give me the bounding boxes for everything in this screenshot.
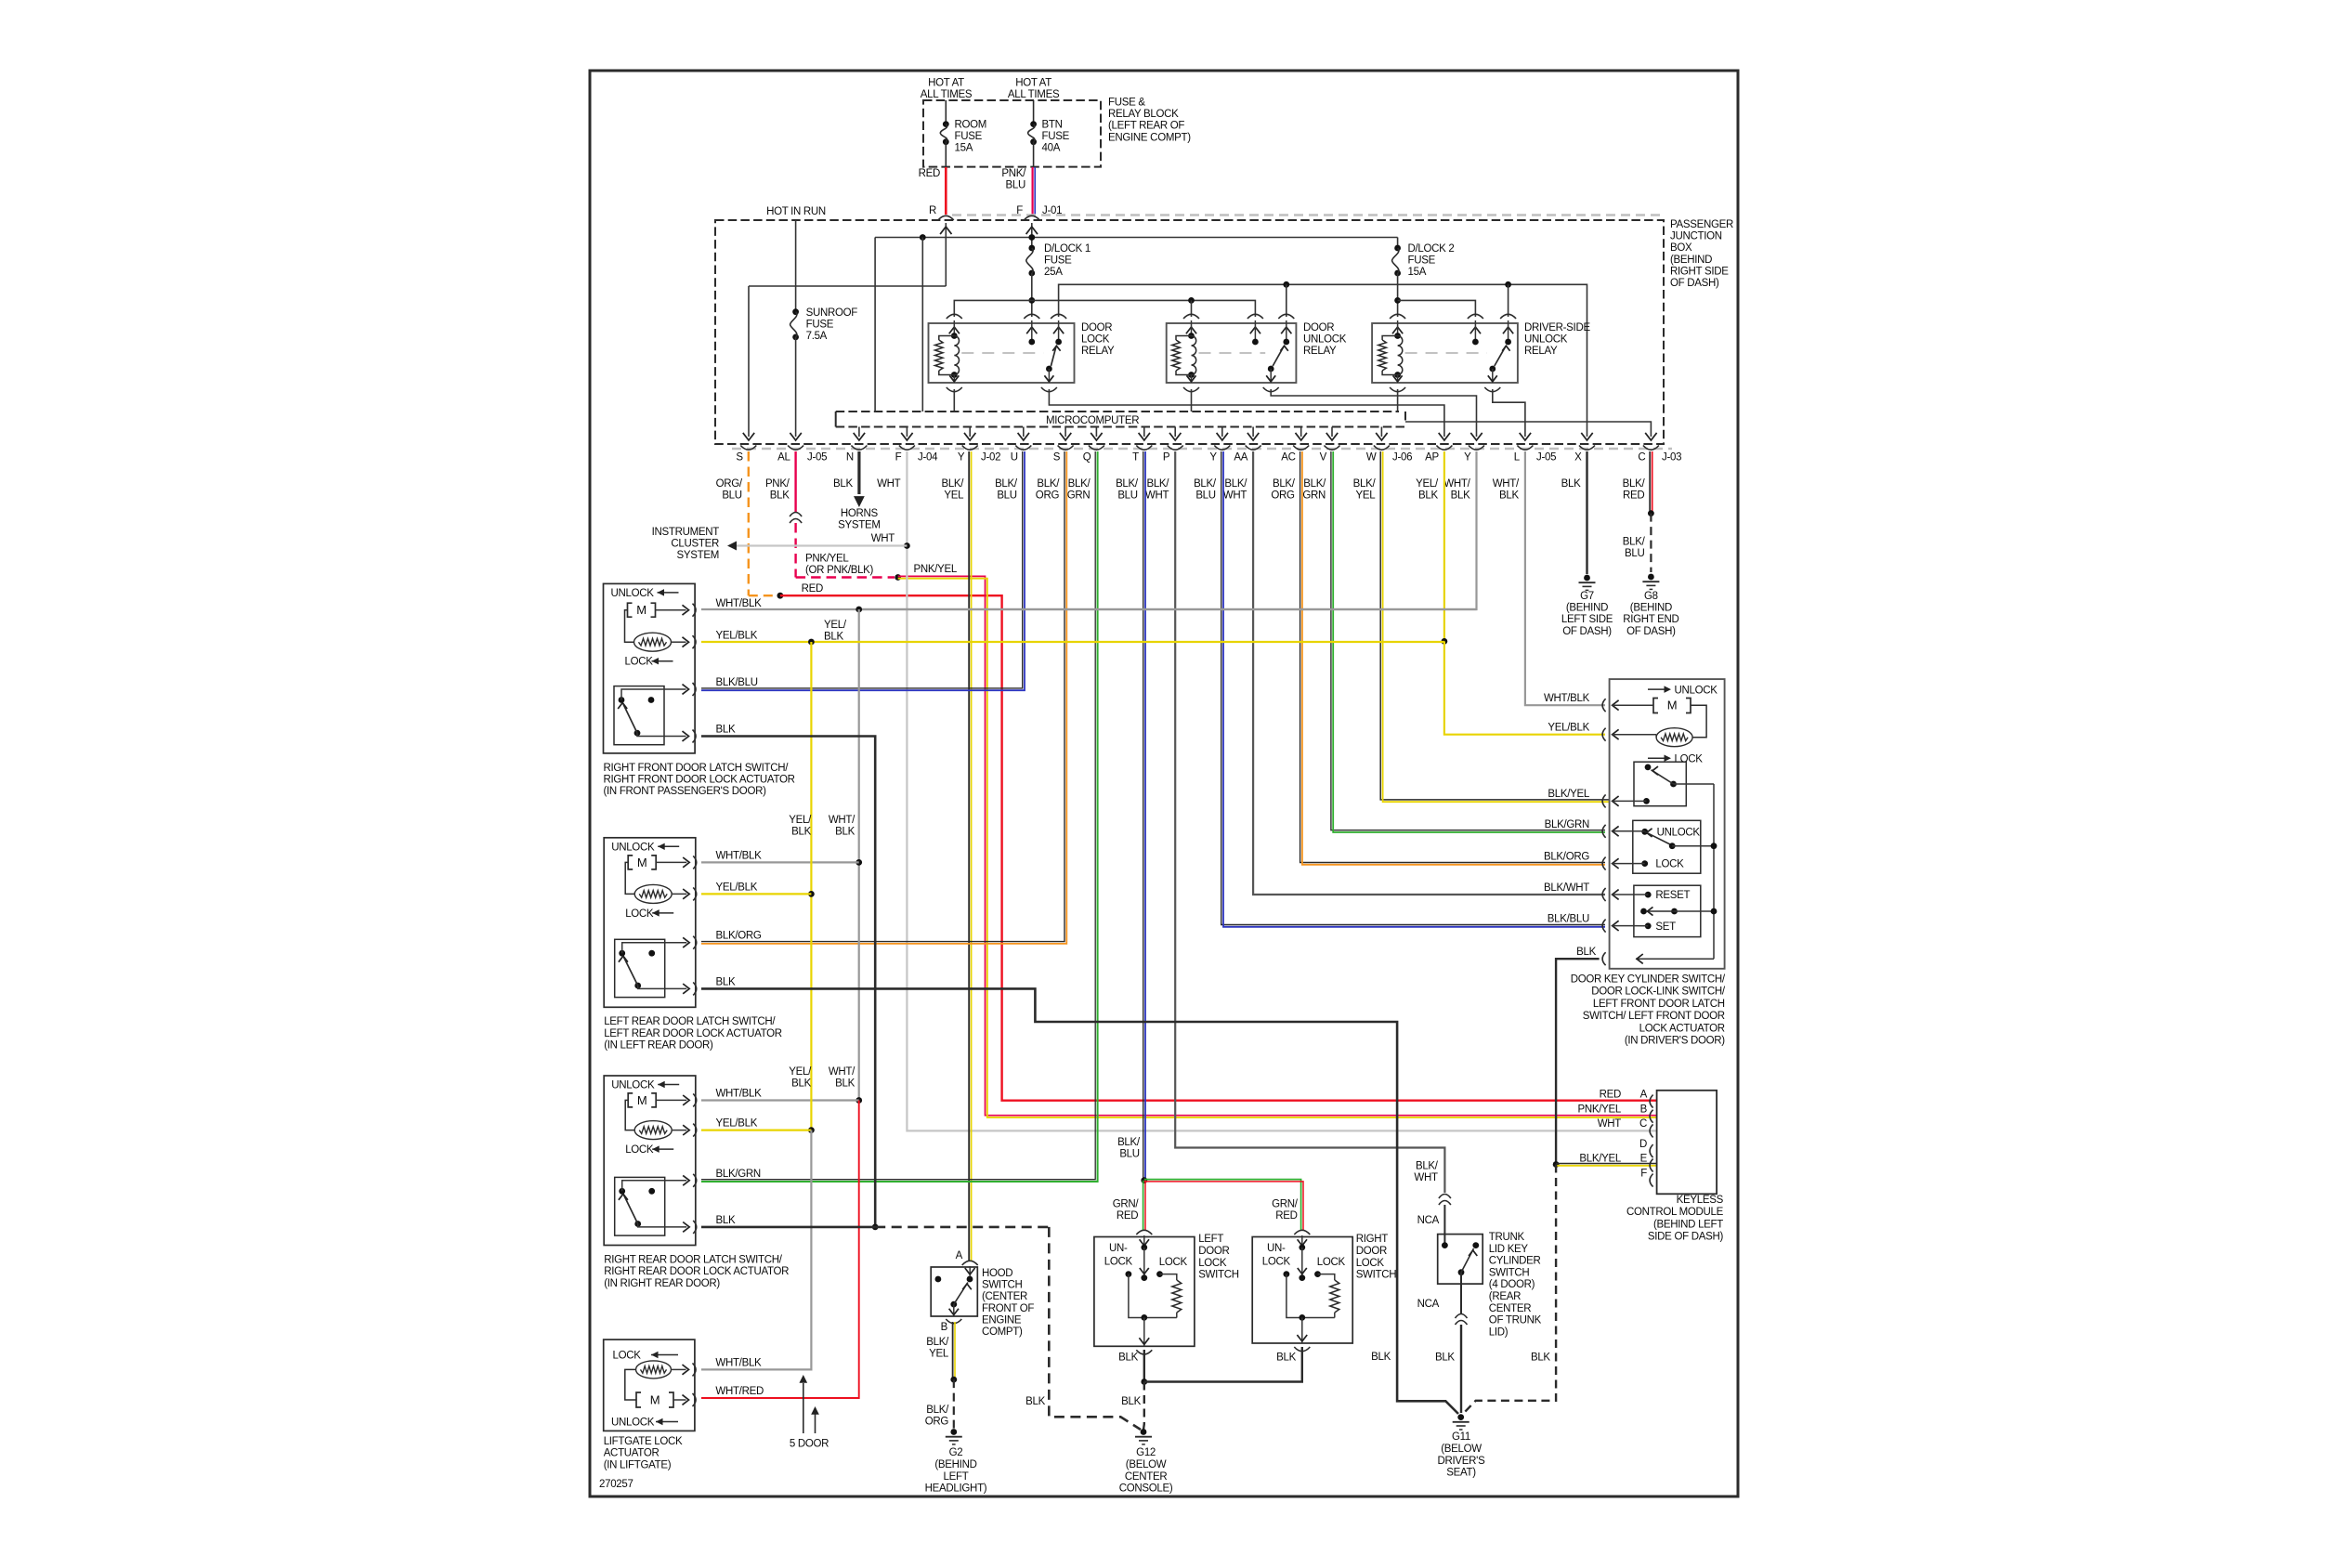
connector terminal Y at x=1590 [1469,446,1484,451]
svg-text:P: P [1163,452,1170,464]
RIGHT|DOOR|LOCK|SWITCH connector bracket [1294,1230,1310,1235]
wire door unlock relay coil to microcomputer [1191,389,1193,412]
wire RED trunk feed to keyless module [780,595,1657,1100]
svg-text:ORG/: ORG/ [716,478,743,490]
svg-text:GRN/: GRN/ [1113,1199,1140,1210]
svg-text:25A: 25A [1044,267,1063,278]
svg-text:S: S [736,452,743,464]
svg-text:INSTRUMENT: INSTRUMENT [652,527,720,538]
wire BLK/YEL from Y terminal to hood switch A [968,451,970,1261]
svg-text:AC: AC [1281,452,1295,464]
svg-text:WHT/BLK: WHT/BLK [716,850,763,861]
svg-text:BLK: BLK [1435,1352,1455,1363]
svg-text:OF DASH): OF DASH) [1626,626,1676,637]
pin BLK/GRN into UNLOCK contact [1602,825,1606,838]
svg-text:BLK/BLU: BLK/BLU [716,677,758,688]
svg-text:F: F [895,452,902,464]
wire ROOM FUSE to R terminal [945,142,947,167]
svg-text:A: A [956,1250,963,1261]
svg-text:HORNS: HORNS [841,508,879,519]
hood switch internals [969,1266,971,1276]
hood switch B pin bracket [946,1319,961,1324]
svg-text:BLK/: BLK/ [1224,478,1247,490]
svg-text:RIGHT FRONT DOOR LOCK ACTUATOR: RIGHT FRONT DOOR LOCK ACTUATOR [604,775,795,786]
svg-text:FUSE: FUSE [1408,255,1436,267]
ground G8 [1648,574,1654,581]
RIGHT|DOOR|LOCK|SWITCH output bracket [1294,1347,1310,1352]
svg-text:LOCK: LOCK [1655,859,1684,870]
svg-text:G2: G2 [949,1447,963,1458]
connector terminal W at x=1487 [1374,446,1390,451]
wire WHT/BLK from L terminal to driver door motor [1525,451,1605,705]
wire BLK/BLU from U terminal to right front door latch switch [701,451,1023,688]
svg-text:(IN DRIVER'S DOOR): (IN DRIVER'S DOOR) [1625,1036,1725,1047]
svg-text:(IN LEFT REAR DOOR): (IN LEFT REAR DOOR) [604,1040,713,1052]
svg-text:BLK/: BLK/ [1146,478,1169,490]
svg-text:UNLOCK: UNLOCK [611,842,655,853]
wire BLK/ORG from S terminal to left rear door latch switch [701,451,1064,942]
wire door lock relay coil to microcomputer [953,389,955,412]
wire WHT/RED continuation to liftgate motor [701,1101,859,1399]
motor pin [683,857,689,868]
svg-text:MICROCOMPUTER: MICROCOMPUTER [1046,415,1139,426]
wire door lock relay switch output to AP terminal [1049,389,1444,437]
svg-text:DRIVER-SIDE: DRIVER-SIDE [1524,322,1590,333]
wire branch down to S terminal (HOT IN RUN feed) [748,286,750,437]
svg-text:UNLOCK: UNLOCK [1657,827,1701,838]
component KEYLESS CONTROL MODULE box [1657,1091,1718,1195]
svg-text:U: U [1011,452,1018,464]
svg-text:CONTROL MODULE: CONTROL MODULE [1626,1207,1724,1218]
ground G11 [1457,1414,1464,1420]
svg-text:LID): LID) [1489,1326,1509,1338]
svg-text:DOOR LOCK-LINK SWITCH/: DOOR LOCK-LINK SWITCH/ [1591,987,1726,998]
latch switch wiring to pins [622,943,687,953]
svg-text:BLU: BLU [1195,490,1215,502]
svg-text:RIGHT: RIGHT [1356,1234,1389,1245]
svg-text:BLK: BLK [1499,490,1519,502]
svg-text:LEFT REAR DOOR LOCK ACTUATOR: LEFT REAR DOOR LOCK ACTUATOR [604,1028,782,1039]
wire PNK/YEL to keyless module B pin [898,576,1657,1115]
svg-text:NCA: NCA [1417,1299,1440,1310]
svg-text:WHT/: WHT/ [829,815,856,826]
wire ORG/BLU dashed from S terminal [748,451,750,595]
svg-text:C: C [1638,452,1645,464]
svg-text:RED: RED [1117,1210,1138,1222]
component DOOR KEY CYLINDER SWITCH / driver's door box [1610,679,1725,969]
svg-text:J-03: J-03 [1662,452,1681,464]
svg-text:BLK/ORG: BLK/ORG [1544,852,1589,863]
wire HOT feed to ROOM FUSE [945,100,947,124]
wire BLK dashed to ground G12 [875,1226,1049,1229]
svg-text:M: M [637,1093,647,1107]
wire GRN/RED to right door lock switch [1144,1180,1301,1230]
svg-text:HOT IN RUN: HOT IN RUN [766,206,826,217]
svg-text:BLK: BLK [1561,478,1581,490]
wire BLK from driver door to keyless module E [1556,959,1600,1164]
door latch/actuator box outline [604,1076,696,1246]
svg-text:LOCK ACTUATOR: LOCK ACTUATOR [1639,1023,1725,1034]
wire driver-side unlock relay coil to microcomputer [1397,389,1399,412]
driver door motor pin WHT/BLK [1602,699,1606,712]
svg-text:5 DOOR: 5 DOOR [790,1439,829,1450]
svg-text:OF DASH): OF DASH) [1562,626,1612,637]
connector terminal T at x=1232 [1136,446,1152,451]
svg-text:YEL/BLK: YEL/BLK [1548,723,1589,734]
wire BLK dashed from keyless to ground G11 [1464,1165,1556,1414]
svg-text:YEL/: YEL/ [1416,478,1439,490]
wire driver-side unlock relay switch pin from common rail [1508,284,1509,317]
diagram outer border frame [590,71,1738,1496]
wire YEL/BLK rail from AP terminal [1443,451,1445,641]
keyless module pin A [1650,1095,1653,1108]
connector terminal L at x=1642 [1517,446,1533,451]
svg-text:SWITCH: SWITCH [982,1280,1023,1291]
wire BLK joining right door lock switch [1144,1347,1302,1382]
pin BLK/BLU into SET [1602,920,1606,933]
relay DOOR|LOCK|RELAY coil output pin [953,375,955,384]
svg-text:CONSOLE): CONSOLE) [1119,1483,1173,1495]
relay DOOR|LOCK|RELAY coil pin bracket [947,314,962,319]
component HOOD SWITCH box [931,1267,977,1316]
svg-text:G8: G8 [1644,591,1658,602]
wire microcomputer power feed 1 [874,238,876,412]
svg-text:(BEHIND: (BEHIND [1566,603,1608,614]
wire BLK/BLU from Y terminal to driver door SET switch [1221,451,1605,925]
svg-text:SYSTEM: SYSTEM [677,550,720,561]
svg-text:BLK: BLK [1276,1352,1296,1363]
svg-text:UN-: UN- [1109,1243,1128,1254]
component LIFTGATE LOCK ACTUATOR box [604,1339,695,1431]
svg-text:BLK: BLK [833,478,853,490]
fuse SUNROOF FUSE 7.5A [795,220,797,312]
svg-text:UNLOCK: UNLOCK [1675,685,1718,696]
svg-text:PNK/YEL: PNK/YEL [1578,1104,1622,1116]
internal link motor-resistor [625,610,634,643]
svg-text:BLK: BLK [791,827,811,838]
driver door lock-link switch box [1633,820,1701,873]
svg-text:15A: 15A [955,143,973,154]
door latch/actuator box outline [604,583,696,753]
svg-text:ORG: ORG [1271,490,1295,502]
annotation 5 DOOR [803,1383,804,1433]
SET contact [1645,922,1652,929]
svg-text:BLK/BLU: BLK/BLU [1548,914,1589,925]
relay DOOR|UNLOCK|RELAY box [1167,323,1297,383]
svg-text:BLK/: BLK/ [1353,478,1377,490]
latch switch box [615,939,665,997]
svg-text:(BEHIND LEFT: (BEHIND LEFT [1653,1219,1723,1230]
svg-text:WHT/RED: WHT/RED [715,1386,764,1397]
svg-text:SET: SET [1655,921,1676,933]
svg-text:G7: G7 [1580,591,1594,602]
svg-text:S: S [1053,452,1061,464]
fuse D/LOCK 1 FUSE 25A [1028,245,1035,252]
microcomputer dashed box [836,411,1399,412]
wire BLK/RED from C terminal [1649,451,1651,514]
svg-text:40A: 40A [1042,143,1061,154]
wire BLK from left door lock switch [1143,1350,1145,1382]
connector terminal F at x=976 [899,446,915,451]
wire BLK/ORG from AC terminal to driver door LOCK contact [1300,451,1605,863]
svg-text:BLK: BLK [824,632,843,643]
svg-text:RED: RED [1600,1089,1621,1100]
svg-text:BLK/GRN: BLK/GRN [716,1169,761,1180]
wire YEL/BLK to driver door actuator resistor [1444,641,1605,734]
svg-text:BLK/YEL: BLK/YEL [1579,1153,1621,1164]
resistor pin [683,889,689,899]
svg-text:DOOR: DOOR [1198,1246,1229,1257]
latch switch wiring to pins [621,689,686,700]
wire WHT/BLK rail vertical [858,609,860,1101]
svg-text:OF DASH): OF DASH) [1670,278,1719,289]
svg-text:YEL/BLK: YEL/BLK [716,1118,758,1130]
LEFT|DOOR|LOCK|SWITCH switch loop and resistor [1129,1274,1177,1318]
svg-text:PNK/: PNK/ [765,478,790,490]
latch switch wiring to pins [622,1181,687,1192]
connector terminal Y at x=1044 [962,446,978,451]
svg-text:JUNCTION: JUNCTION [1670,231,1722,242]
wire sunroof fuse to AL terminal [795,337,797,437]
connector F / J-01 on junction box [1024,216,1039,220]
svg-text:ORG: ORG [925,1417,949,1428]
gray connector strip on junction box top edge [952,214,1661,216]
svg-text:BLU: BLU [1006,180,1025,191]
svg-text:WHT: WHT [1145,490,1169,502]
svg-text:FUSE &: FUSE & [1108,98,1145,109]
svg-text:LIFTGATE LOCK: LIFTGATE LOCK [604,1436,683,1447]
svg-text:RED: RED [1623,490,1644,502]
connector terminal Y at x=1316 [1214,446,1230,451]
svg-text:CENTER: CENTER [1489,1303,1531,1314]
wire PNK/BLK dashed from AL terminal [794,451,796,512]
driver door internal link [1691,705,1706,738]
svg-text:Q: Q [1083,452,1091,464]
microcomputer output arrows to connector row [858,427,860,438]
svg-text:F: F [1640,1168,1647,1179]
svg-text:C: C [1639,1118,1647,1130]
svg-text:BLK/: BLK/ [1117,1137,1141,1148]
svg-text:(OR PNK/BLK): (OR PNK/BLK) [805,565,874,576]
svg-text:ACTUATOR: ACTUATOR [604,1448,660,1459]
relay DOOR|LOCK|RELAY switch [1051,314,1066,319]
svg-text:LEFT: LEFT [944,1471,969,1483]
svg-text:WHT/BLK: WHT/BLK [716,598,763,609]
lock position resistor [634,884,672,903]
wire BLK/YEL to keyless E pin [1556,1163,1657,1165]
svg-text:BLK/: BLK/ [1194,478,1217,490]
svg-text:WHT/: WHT/ [1443,478,1470,490]
svg-text:CYLINDER: CYLINDER [1489,1256,1541,1267]
driver door internal ground rail [1713,784,1715,959]
wire WHT/BLK to left rear door motor [701,861,859,863]
fuse BTN FUSE 40A [1030,121,1037,127]
wire WHT branch to instrument cluster [734,544,907,546]
svg-text:ROOM: ROOM [955,120,987,131]
wire BLK/YEL from hood switch B [952,1322,954,1378]
svg-text:N: N [846,452,854,464]
svg-text:SUNROOF: SUNROOF [806,307,858,319]
svg-text:FUSE: FUSE [1042,131,1070,142]
connector terminal AP at x=1555 [1436,446,1452,451]
svg-text:LOCK: LOCK [625,908,654,920]
svg-text:BLK: BLK [835,827,855,838]
svg-text:WHT: WHT [1598,1118,1622,1130]
svg-text:BLK/WHT: BLK/WHT [1544,882,1589,894]
svg-text:PASSENGER: PASSENGER [1670,219,1733,230]
fuse D/LOCK 2 FUSE 15A [1397,238,1399,249]
wire WHT/BLK from Y terminal (unlock relay) joining rail [859,451,1477,609]
LEFT|DOOR|LOCK|SWITCH output bracket [1136,1350,1152,1354]
svg-text:SYSTEM: SYSTEM [838,520,881,531]
driver door resistor pin YEL/BLK [1602,728,1606,741]
relay DRIVER-SIDE|UNLOCK|RELAY coil and resistor [1394,333,1401,339]
svg-text:AL: AL [777,452,790,464]
liftgate resistor [636,1361,672,1379]
internal link motor-resistor [625,862,634,894]
RIGHT|DOOR|LOCK|SWITCH switch loop and resistor [1287,1274,1335,1318]
relay DRIVER-SIDE|UNLOCK|RELAY second pin (fused feed) [1468,314,1483,319]
svg-text:J-04: J-04 [918,452,938,464]
wire BLK/BLU from T terminal to door lock switches [1143,451,1144,1181]
svg-text:BLK: BLK [791,1078,811,1090]
svg-text:B: B [1640,1104,1648,1116]
svg-text:LOCK: LOCK [1356,1258,1385,1269]
svg-text:BLK/: BLK/ [941,478,964,490]
svg-text:RIGHT FRONT DOOR LATCH SWITCH/: RIGHT FRONT DOOR LATCH SWITCH/ [604,763,790,774]
svg-text:LOCK: LOCK [1262,1257,1291,1268]
lock position resistor [634,633,672,651]
connector terminal U at x=1102 [1015,446,1031,451]
passenger junction box dashed outline [715,220,1664,444]
svg-text:W: W [1366,452,1377,464]
svg-text:15A: 15A [1408,267,1427,278]
svg-text:PNK/: PNK/ [1001,168,1026,179]
connector terminal P at x=1265 [1168,446,1183,451]
wire BLK from N terminal to horns system [857,451,860,494]
relay DOOR|UNLOCK|RELAY coil pin bracket [1183,314,1199,319]
wire RED (ROOM FUSE output) [945,167,947,215]
connector terminal C at x=1777 [1643,446,1659,451]
svg-text:M: M [636,603,647,617]
svg-text:ALL TIMES: ALL TIMES [921,89,973,100]
wire branch D/LOCK2 to driver-side relay second pin [1398,300,1476,317]
svg-text:WHT: WHT [871,533,895,544]
wire YEL/BLK rail vertical [810,642,812,1130]
wire WHT/BLK continuation to liftgate resistor [701,1130,811,1370]
svg-text:J-05: J-05 [1536,452,1556,464]
wire unlock relay switch pin from common rail [1286,284,1287,317]
connector terminal AL at x=857 [788,446,803,451]
fuse ROOM FUSE 15A [943,121,949,127]
svg-text:LOCK: LOCK [1159,1257,1188,1268]
relay DOOR|LOCK|RELAY box [929,323,1075,383]
in-line connector on AL wire [790,513,802,517]
svg-text:WHT/BLK: WHT/BLK [716,1088,763,1099]
svg-text:M: M [1667,699,1678,712]
svg-text:BLK: BLK [770,490,790,502]
wire from trunk switch to lower connector [1460,1273,1462,1313]
pin BLK (driver door) [1602,952,1606,965]
wire PNK/BLU (BTN FUSE output) [1031,167,1033,215]
label UNLOCK with arrow (driver door) [1648,688,1668,690]
svg-text:LEFT SIDE: LEFT SIDE [1561,614,1613,625]
svg-text:HOT AT: HOT AT [1015,78,1051,89]
svg-text:NCA: NCA [1417,1215,1440,1226]
resistor pin [682,637,688,647]
svg-text:LOCK: LOCK [1198,1258,1227,1269]
svg-text:(BEHIND: (BEHIND [1630,603,1672,614]
svg-text:L: L [1514,452,1521,464]
component TRUNK LID KEY CYLINDER SWITCH box [1438,1235,1483,1285]
wire BLK/WHT from AA terminal to driver door RESET switch [1253,451,1605,895]
svg-text:R: R [929,205,936,216]
wire WHT from F terminal to keyless module C pin [907,451,1656,1130]
svg-text:LOCK: LOCK [613,1351,642,1362]
relay DOOR|UNLOCK|RELAY switch [1278,314,1294,319]
svg-text:RELAY BLOCK: RELAY BLOCK [1108,109,1179,120]
svg-text:(BELOW: (BELOW [1126,1459,1167,1470]
svg-text:BLK/: BLK/ [1416,1161,1439,1172]
svg-text:FRONT OF: FRONT OF [982,1303,1034,1314]
svg-text:BLK: BLK [716,725,736,736]
svg-text:BLK/: BLK/ [1116,478,1139,490]
wire YEL/BLK to right rear door resistor [701,1129,811,1130]
svg-text:YEL/: YEL/ [789,815,812,826]
svg-text:LID KEY: LID KEY [1489,1244,1529,1255]
svg-text:LEFT REAR DOOR LATCH SWITCH/: LEFT REAR DOOR LATCH SWITCH/ [604,1016,776,1027]
svg-text:ORG: ORG [1036,490,1060,502]
svg-text:BLK/: BLK/ [1303,478,1326,490]
connector terminal V at x=1434 [1325,446,1340,451]
wire D/LOCK 2 fuse to driver-side relay coil [1397,273,1399,317]
svg-text:GRN/: GRN/ [1272,1199,1299,1210]
wire BLK from X terminal to ground G7 [1586,451,1587,574]
keyless module pin F [1650,1174,1653,1187]
svg-text:FUSE: FUSE [806,320,834,331]
svg-text:ENGINE COMPT): ENGINE COMPT) [1108,132,1191,143]
internal link motor-resistor [625,1100,634,1130]
motor pin [683,1095,689,1105]
svg-text:RESET: RESET [1655,890,1690,901]
svg-text:SWITCH: SWITCH [1356,1270,1397,1281]
svg-text:D/LOCK 1: D/LOCK 1 [1044,243,1091,255]
svg-text:A: A [1640,1089,1648,1100]
svg-text:BLK: BLK [1025,1396,1045,1407]
svg-text:FUSE: FUSE [1044,255,1072,267]
svg-text:BLK/GRN: BLK/GRN [1545,819,1589,830]
svg-text:Y: Y [1464,452,1471,464]
lock-link switch LOCK contact [1641,860,1648,867]
relay DRIVER-SIDE|UNLOCK|RELAY box [1372,323,1518,383]
svg-text:ALL TIMES: ALL TIMES [1008,89,1060,100]
svg-text:T: T [1132,452,1139,464]
relay DOOR|UNLOCK|RELAY coil output pin [1191,375,1193,384]
wire R terminal down into junction box [945,223,947,286]
LEFT|DOOR|LOCK|SWITCH connector bracket [1136,1230,1152,1235]
svg-text:D: D [1639,1139,1647,1150]
svg-text:UNLOCK: UNLOCK [1303,334,1347,346]
svg-text:LOCK: LOCK [1081,334,1110,346]
relay DOOR|UNLOCK|RELAY coil and resistor [1188,333,1195,339]
wire BLK right rear door switch to junction [701,1226,875,1229]
svg-text:BLK/: BLK/ [926,1337,949,1348]
svg-text:BLK: BLK [1576,947,1596,958]
svg-text:(IN RIGHT REAR DOOR): (IN RIGHT REAR DOOR) [604,1278,720,1289]
svg-text:BLU: BLU [1117,490,1137,502]
svg-text:BLK/: BLK/ [1623,478,1646,490]
svg-text:YEL/BLK: YEL/BLK [716,882,758,893]
